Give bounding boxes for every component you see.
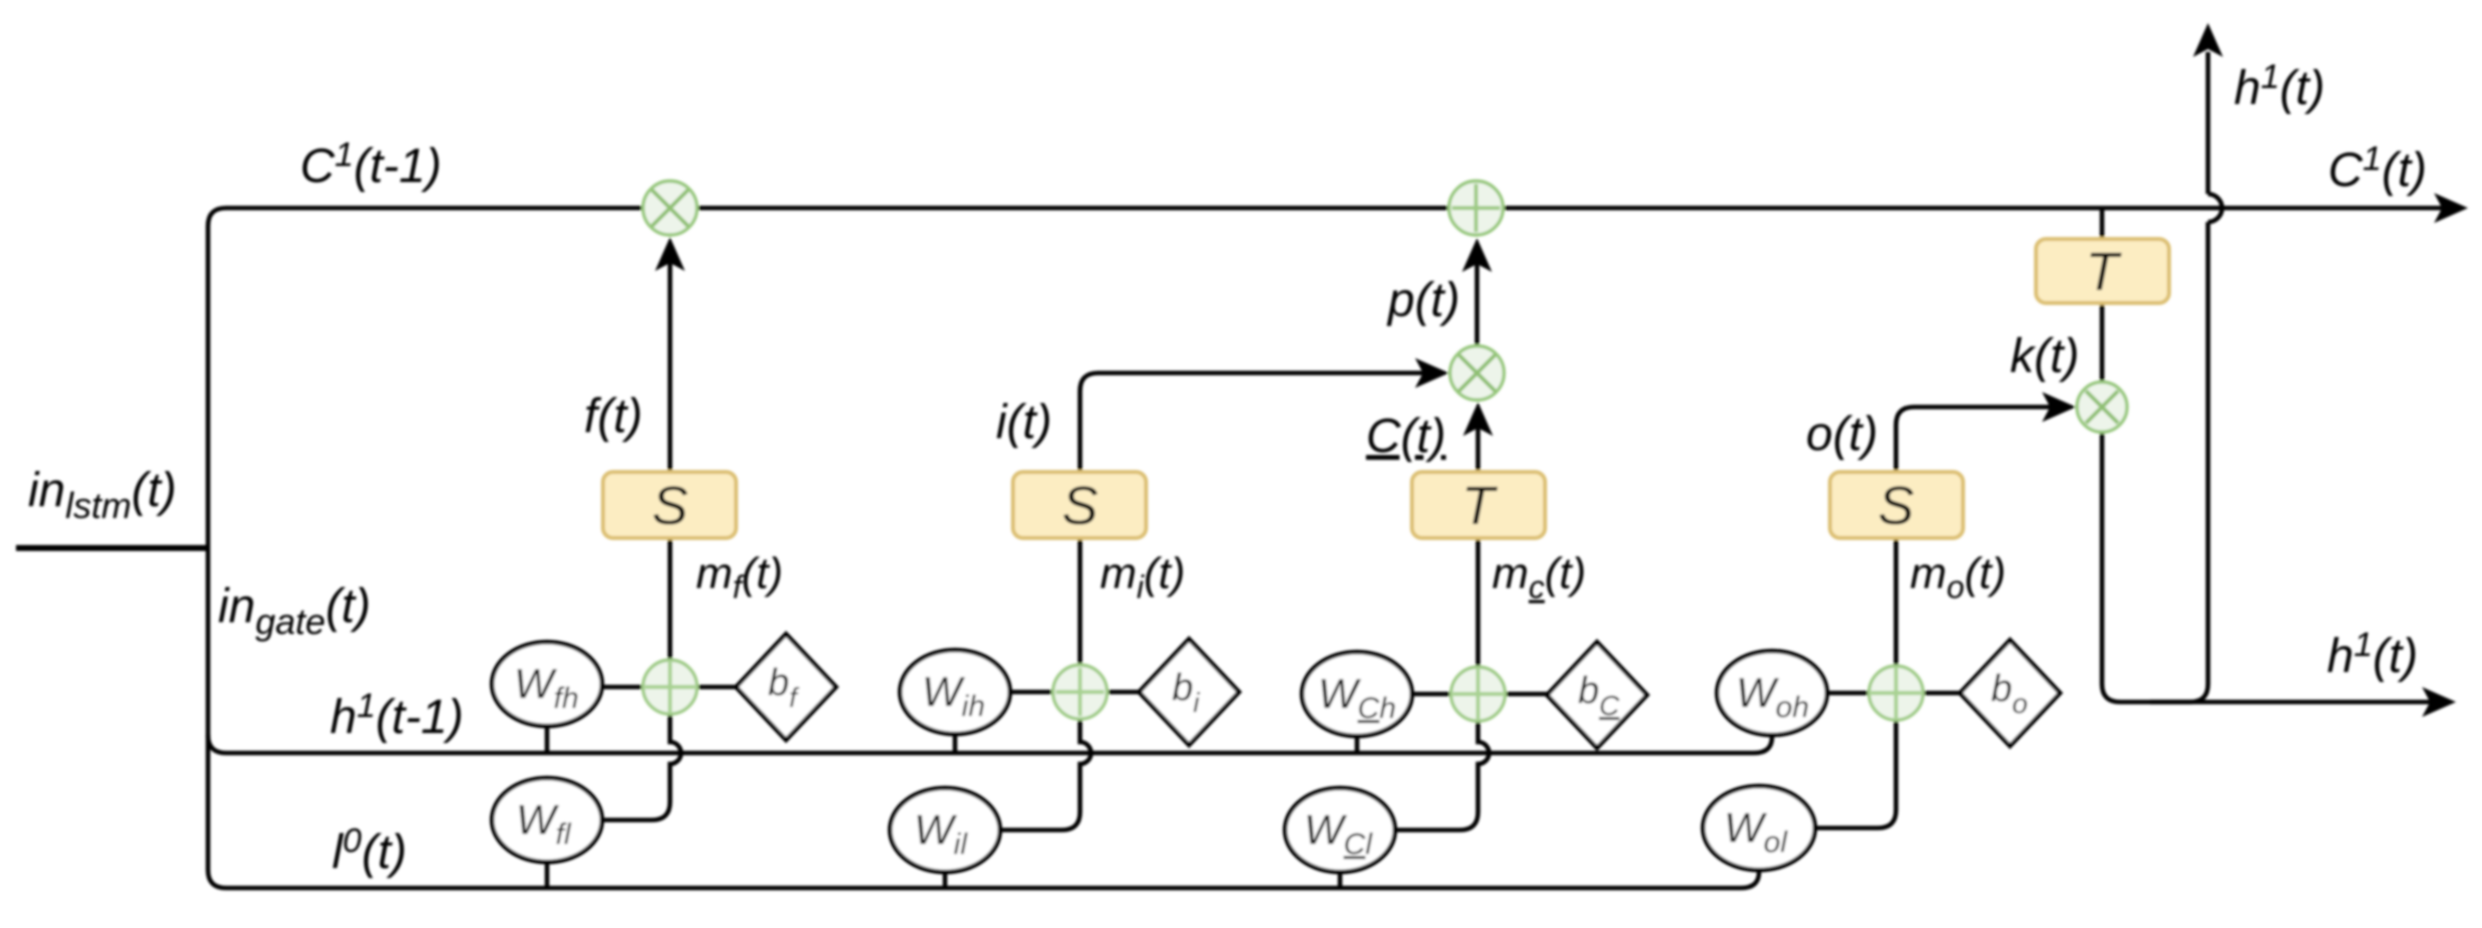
svg-text:o(t): o(t): [1806, 408, 1878, 461]
ellipse: Wfh: [492, 642, 602, 726]
arrowhead: h1(t) up output: [2193, 23, 2223, 57]
ellipse: Woh: [1717, 651, 1827, 735]
svg-text:ingate(t): ingate(t): [218, 580, 371, 642]
diamond: bi: [1139, 639, 1239, 745]
wire: Wfh to bf connector through plus node: [602, 685, 737, 690]
ellipse: Wfl: [492, 778, 602, 862]
box: tanh T (candidate): [1412, 472, 1545, 538]
ellipse: WCl: [1285, 788, 1395, 872]
arrowhead: C(t) into p multiply node: [1463, 402, 1493, 436]
node: gate sum plus (output): [1869, 666, 1923, 720]
svg-text:mi(t): mi(t): [1100, 549, 1185, 605]
wire: in_lstm(t) input line: [16, 545, 208, 551]
node: gate sum plus (forget): [643, 660, 697, 714]
box: sigmoid S (input gate): [1013, 472, 1146, 538]
svg-text:p(t): p(t): [1386, 274, 1460, 327]
svg-text:mf(t): mf(t): [696, 549, 783, 605]
ellipse: Wil: [890, 788, 1000, 872]
svg-text:h1(t): h1(t): [2327, 626, 2418, 683]
svg-text:h1(t): h1(t): [2234, 58, 2325, 115]
wire: WCh to bC connector: [1412, 692, 1547, 697]
wire: f gate riser from S box up to multiply node: [668, 260, 673, 472]
box: sigmoid S (output gate): [1830, 472, 1963, 538]
ellipse: Wol: [1703, 786, 1815, 870]
wire: k node output down then right to h1(t) output: [2102, 432, 2434, 702]
ellipse: WCh: [1302, 652, 1412, 736]
wire: h1(t) branch up over C line with hop: [2150, 222, 2208, 702]
arrowhead: h1(t) output right: [2422, 687, 2456, 717]
wire: C gate riser from T box up into p multiply node: [1476, 426, 1481, 472]
svg-text:C(t): C(t): [1366, 410, 1446, 463]
arrowhead: p(t) into plus node: [1462, 238, 1492, 272]
wire hop: h1 up line jumps C line: [2208, 194, 2222, 222]
node: multiply on C line (forget): [643, 181, 697, 235]
svg-text:h1(t-1): h1(t-1): [330, 687, 464, 744]
ellipse: Wih: [900, 650, 1010, 734]
arrowhead: i(t) into p multiply node: [1415, 358, 1449, 388]
wire: i gate lower riser through plus node to Wil, hop over h bus: [1000, 538, 1091, 830]
wire: Woh to bo connector: [1827, 691, 1960, 696]
node: add on C line: [1449, 181, 1503, 235]
svg-text:C1(t-1): C1(t-1): [300, 136, 442, 193]
wire: WCh stem to h bus: [1355, 734, 1360, 753]
wire: Wfh stem to h bus: [545, 724, 550, 753]
svg-text:f(t): f(t): [584, 390, 643, 443]
wire: f gate lower riser S box down through plus node to Wfl, with hop over h bus: [602, 538, 681, 820]
svg-text:C1(t): C1(t): [2328, 140, 2427, 197]
svg-text:l0(t): l0(t): [332, 822, 407, 879]
wire: i gate path from S box up then right into p multiply node: [1080, 373, 1427, 472]
svg-text:S: S: [1878, 476, 1914, 536]
svg-text:S: S: [1062, 476, 1098, 536]
wire: C gate lower riser through plus node to WCl, hop over h bus: [1396, 538, 1489, 830]
box: sigmoid S (forget gate): [603, 472, 736, 538]
svg-text:k(t): k(t): [2010, 330, 2079, 383]
arrowhead: f(t) into multiply node: [655, 237, 685, 271]
wire: o gate path from S box up then right into k multiply node: [1896, 407, 2053, 472]
svg-text:mo(t): mo(t): [1910, 549, 2006, 605]
wire: Wih stem to h bus: [953, 732, 958, 753]
svg-text:mc(t): mc(t): [1492, 549, 1586, 605]
wire: o gate lower riser through plus node to Wol: [1814, 538, 1896, 828]
svg-text:i(t): i(t): [996, 396, 1052, 449]
svg-text:T: T: [2086, 242, 2123, 302]
svg-text:T: T: [1462, 476, 1499, 536]
wire: T2 riser from C line down through T box to k node: [2100, 208, 2105, 382]
wire: h1(t-1) bus branching right from left vertical: [208, 733, 1772, 753]
wire: Wfl stem to l0 bus: [545, 858, 550, 888]
wire: cell-state line C with left corner, left vertical, bottom l0 bus: [208, 208, 2452, 888]
arrowhead: C1(t) output right: [2434, 193, 2468, 223]
node: multiply p(t): [1450, 346, 1504, 400]
wire: Wil stem to l0 bus: [943, 870, 948, 888]
wire: WCl stem to l0 bus: [1338, 870, 1343, 888]
arrowhead: o(t) into k multiply node: [2042, 392, 2076, 422]
node: gate sum plus (candidate): [1451, 667, 1505, 721]
node: multiply k(t): [2077, 382, 2127, 432]
node: gate sum plus (input): [1053, 665, 1107, 719]
diamond: bC: [1547, 642, 1647, 748]
svg-text:inlstm(t): inlstm(t): [28, 464, 177, 526]
diamond: bf: [736, 634, 836, 740]
box: tanh T (cell output): [2036, 239, 2169, 303]
diamond: bo: [1960, 640, 2060, 746]
wire: Wih to bi connector: [1010, 690, 1139, 695]
wire: p riser from p multiply node up into plus node on C line: [1475, 262, 1480, 347]
svg-text:S: S: [652, 476, 688, 536]
